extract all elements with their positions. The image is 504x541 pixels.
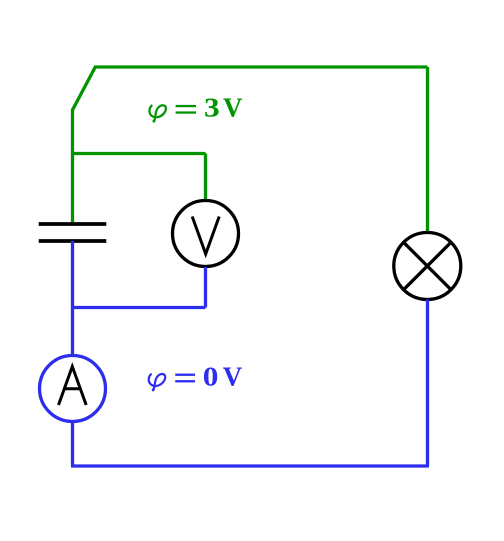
svg-text:V: V <box>223 93 243 123</box>
wire: diagonal green top-left <box>73 66 96 110</box>
voltmeter V1 circle <box>173 201 239 267</box>
svg-text:3: 3 <box>204 94 220 124</box>
wire: green drop to voltmeter top <box>204 154 207 201</box>
wire: blue ammeter bottom down <box>71 422 74 467</box>
wire: blue right vertical up to lamp bottom <box>426 300 429 467</box>
wire: left vertical green down to capacitor <box>71 109 74 224</box>
ammeter A1 letter A <box>59 367 87 406</box>
node phi=3V label <box>149 105 166 122</box>
wire: blue from capacitor bottom to ammeter top <box>71 241 74 355</box>
ammeter A1 circle <box>40 356 106 422</box>
wire: mid horizontal green to voltmeter branch <box>73 152 206 155</box>
node phi=0V label <box>149 374 166 391</box>
svg-text:V: V <box>223 361 243 391</box>
wire: right vertical green to lamp top <box>426 67 429 233</box>
svg-text:0: 0 <box>203 362 219 392</box>
capacitor C1 top plate <box>39 222 107 226</box>
capacitor C1 bottom plate <box>39 239 107 243</box>
wire: blue horizontal 0V branch <box>73 306 206 309</box>
lamp L1 circle <box>394 233 461 300</box>
lamp L1 cross <box>404 242 451 289</box>
voltmeter V1 letter V <box>192 217 219 255</box>
wire: blue bottom horizontal <box>71 464 429 467</box>
wire: blue riser to voltmeter bottom <box>204 267 207 308</box>
wire: top horizontal green (3V net) <box>95 65 428 68</box>
